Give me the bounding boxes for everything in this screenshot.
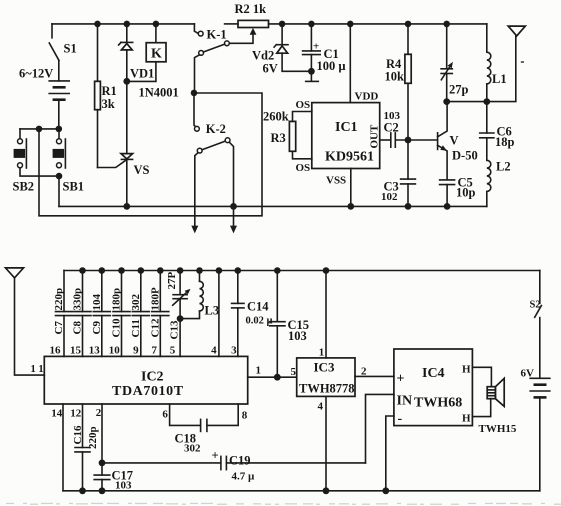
capacitor C11 302 [140, 271, 142, 312]
capacitor C18 302 [170, 404, 201, 425]
svg-text:D-50: D-50 [452, 149, 478, 163]
relay contact K-1 [198, 31, 203, 36]
svg-text:K-2: K-2 [206, 122, 226, 136]
relay coil K [153, 21, 160, 28]
svg-text:6: 6 [162, 409, 168, 421]
svg-text:1: 1 [256, 365, 262, 377]
op-amp U4 : IC4 TWH68 box [394, 349, 473, 426]
capacitor C15 103 [276, 271, 278, 322]
wire VSS [350, 169, 352, 207]
switch S1 [51, 24, 53, 38]
op-amp U2 : IC2 TDA7010T box [44, 356, 247, 404]
wire IC3 pin 1 [325, 271, 327, 358]
svg-text:6V: 6V [521, 368, 535, 380]
svg-text:SB2: SB2 [13, 180, 35, 194]
capacitor C14 0.02u [237, 271, 239, 304]
svg-text:+: + [212, 449, 219, 463]
svg-text:2: 2 [361, 366, 367, 378]
svg-text:13: 13 [89, 345, 101, 357]
svg-text:C19: C19 [229, 454, 251, 468]
svg-text:C14: C14 [247, 300, 269, 314]
svg-text:0.02 µ: 0.02 µ [246, 316, 273, 327]
svg-text:C8: C8 [72, 321, 84, 335]
svg-text:27p: 27p [449, 83, 469, 97]
svg-text:5: 5 [291, 366, 297, 378]
relay contact K-2 [194, 93, 196, 127]
svg-text:1 1: 1 1 [31, 364, 44, 375]
svg-text:C13: C13 [169, 320, 181, 339]
svg-text:4: 4 [211, 345, 217, 357]
svg-text:4.7 µ: 4.7 µ [232, 471, 256, 483]
svg-text:12: 12 [70, 408, 82, 420]
wire IC3 pin 2 to IC4 [355, 375, 394, 377]
potentiometer R2 1k [225, 23, 238, 25]
svg-text:IC2: IC2 [141, 370, 164, 385]
svg-text:2: 2 [96, 407, 102, 419]
svg-text:K: K [151, 47, 162, 62]
capacitor C10 180p [121, 271, 123, 312]
svg-text:18p: 18p [495, 135, 515, 149]
thyristor VS [126, 81, 128, 153]
svg-text:10: 10 [109, 345, 121, 357]
svg-text:R2 1k: R2 1k [235, 2, 267, 16]
capacitor C19 4.7u [102, 462, 221, 464]
resistor R1 3k [94, 21, 101, 28]
svg-text:OS: OS [296, 162, 311, 174]
capacitor C16 220p [82, 404, 84, 447]
svg-text:IN: IN [397, 394, 413, 409]
svg-text:8: 8 [242, 410, 248, 422]
svg-text:9: 9 [133, 345, 139, 357]
wire receiver ground rail [63, 490, 540, 492]
transistor V D-50 [437, 133, 439, 150]
wire IC2 pin 1 [248, 376, 297, 378]
wire battery negative rail [20, 128, 59, 130]
svg-text:K-1: K-1 [207, 28, 227, 42]
capacitor C1 100u [310, 24, 312, 51]
trimmer capacitor 27p [446, 24, 448, 69]
svg-text:102: 102 [381, 191, 398, 203]
svg-text:103: 103 [288, 329, 307, 343]
svg-text:L1: L1 [492, 72, 507, 86]
battery GB2 6V [530, 377, 550, 379]
svg-text:6V: 6V [263, 62, 278, 76]
svg-text:H: H [462, 364, 471, 376]
capacitor C2 103 [380, 139, 391, 141]
node junctions on bottom rail (top circuit) [123, 203, 130, 210]
resistor R4 10k [407, 24, 409, 54]
capacitor C12 180P [159, 271, 161, 312]
svg-text:V: V [450, 134, 459, 148]
svg-text:15: 15 [70, 345, 82, 357]
svg-text:-: - [398, 412, 403, 427]
svg-text:3k: 3k [102, 97, 115, 111]
svg-text:L3: L3 [205, 304, 220, 318]
wire VDD [349, 24, 351, 103]
wire pin 4 [218, 271, 220, 357]
svg-text:C2: C2 [384, 121, 399, 135]
inductor L3 [199, 271, 201, 282]
wire K-1 to R2 wiper [229, 34, 253, 44]
op-amp U3 : IC3 TWH8778 box [297, 358, 355, 397]
wire bottom rail (top circuit) [59, 205, 487, 207]
svg-text:R3: R3 [271, 131, 286, 145]
zener diode Vd2 6V [281, 24, 283, 45]
node battery-neg / SB junction [36, 126, 43, 133]
battery GB1 6~12V [49, 80, 69, 82]
switch S2 [539, 271, 541, 304]
svg-text:C9: C9 [91, 321, 103, 335]
svg-text:7: 7 [152, 345, 158, 357]
antenna (receiver) [6, 268, 24, 278]
capacitor C9 104 [101, 271, 103, 312]
svg-text:16: 16 [50, 345, 62, 357]
wire IC2 pin 14 [62, 404, 64, 491]
svg-text:C16: C16 [72, 425, 84, 444]
svg-text:OUT: OUT [369, 124, 381, 149]
node K1 pivot net [191, 90, 198, 97]
svg-text:Vd2: Vd2 [252, 49, 274, 63]
resistor R3 260k with OS loop [293, 112, 312, 122]
svg-text:14: 14 [51, 408, 63, 420]
svg-text:IC3: IC3 [314, 360, 335, 375]
wire battery-neg branch to K contacts net [39, 93, 262, 216]
svg-text:10k: 10k [385, 70, 405, 84]
svg-text:IC1: IC1 [335, 120, 358, 135]
svg-text:L2: L2 [496, 160, 511, 174]
svg-text:103: 103 [115, 480, 132, 492]
svg-text:1N4001: 1N4001 [139, 86, 179, 100]
speaker TWH15 [487, 387, 495, 399]
svg-text:302: 302 [130, 294, 142, 311]
capacitor C6 18p [486, 102, 488, 133]
svg-text:+: + [313, 41, 319, 53]
svg-text:6~12V: 6~12V [19, 67, 53, 81]
svg-text:220p: 220p [87, 426, 99, 449]
svg-text:220p: 220p [53, 288, 65, 311]
svg-text:H: H [462, 413, 471, 425]
svg-text:TWH15: TWH15 [479, 423, 517, 435]
svg-text:C7: C7 [53, 321, 65, 335]
trimmer capacitor C13 27P [179, 271, 181, 295]
wire IC3 pin 4 [325, 396, 327, 490]
wire IC4 IN to C19 line [366, 394, 394, 463]
inductor L1 [486, 24, 488, 52]
svg-text:SB1: SB1 [63, 180, 85, 194]
svg-text:VDD: VDD [355, 91, 379, 103]
svg-text:100 µ: 100 µ [317, 59, 346, 73]
svg-text:180P: 180P [149, 287, 161, 311]
pushbutton SB2 [19, 129, 21, 139]
svg-text:104: 104 [91, 294, 103, 311]
svg-text:C12: C12 [149, 318, 161, 337]
svg-text:+: + [397, 372, 405, 387]
wire R1 to VS gate [98, 159, 128, 167]
svg-text:330p: 330p [72, 288, 84, 311]
scan noise bottom caption remnants [6, 503, 561, 505]
capacitor C5 10p [440, 179, 455, 181]
svg-text:OS: OS [296, 99, 311, 111]
svg-text:4: 4 [318, 401, 324, 413]
svg-text:VSS: VSS [326, 175, 346, 187]
node junctions on receiver ground rail [79, 487, 86, 494]
capacitor C3 102 [407, 140, 409, 179]
wire tank top link [447, 36, 516, 102]
svg-text:C10: C10 [111, 318, 123, 337]
svg-text:KD9561: KD9561 [325, 150, 374, 165]
svg-text:S1: S1 [64, 42, 77, 56]
svg-text:TWH8778: TWH8778 [299, 382, 355, 396]
svg-text:302: 302 [184, 443, 201, 455]
svg-text:180p: 180p [111, 288, 123, 311]
svg-text:IC4: IC4 [422, 366, 445, 381]
antenna (transmitter) [508, 26, 525, 36]
inductor L2 [487, 160, 491, 191]
svg-text:27P: 27P [166, 272, 178, 290]
svg-text:260k: 260k [263, 110, 289, 124]
diode VD1 1N4001 [124, 21, 131, 28]
wire top rail left segment [52, 23, 194, 25]
svg-text:10p: 10p [456, 186, 476, 200]
svg-text:TWH68: TWH68 [414, 396, 462, 411]
svg-text:5: 5 [170, 345, 176, 357]
pushbutton SB1 [58, 129, 60, 139]
svg-text:S2: S2 [530, 300, 541, 311]
wire top rail right segment [269, 23, 487, 25]
svg-text:3: 3 [231, 345, 237, 357]
wire IC4 minus to ground rail [386, 416, 394, 491]
svg-text:TDA7010T: TDA7010T [112, 384, 184, 399]
svg-text:VS: VS [134, 163, 150, 177]
wire receiver V+ rail [64, 270, 540, 272]
svg-text:C11: C11 [130, 319, 142, 337]
op-amp U1 : IC1 KD9561 box [312, 103, 380, 169]
svg-text:1: 1 [319, 347, 325, 359]
capacitor C17 103 [101, 404, 103, 475]
wire IC4 H outputs to speaker [472, 367, 491, 386]
capacitor C8 330p [82, 271, 84, 312]
svg-text:VD1: VD1 [130, 67, 154, 81]
capacitor C7 220p [63, 271, 65, 312]
